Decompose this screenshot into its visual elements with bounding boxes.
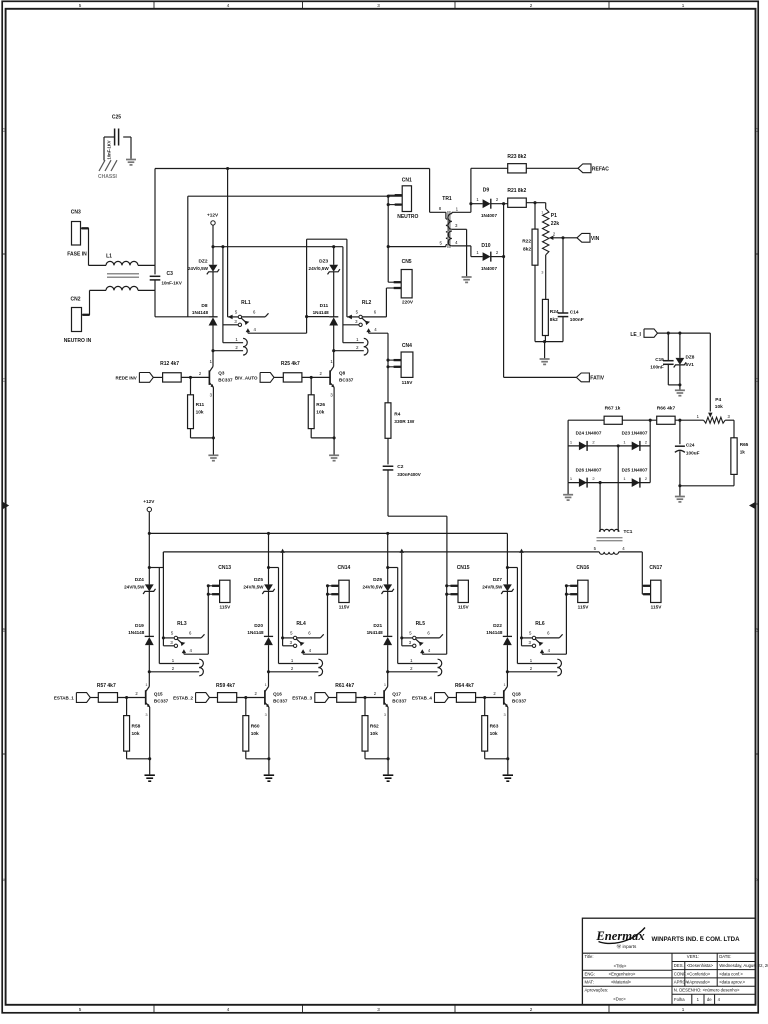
svg-text:B: B (3, 628, 6, 633)
label R59 (216, 683, 235, 689)
wire base Q16 (237, 697, 265, 699)
svg-text:D: D (2, 128, 5, 133)
inductor L1 core (107, 274, 139, 278)
junction D11 link (305, 315, 308, 318)
label C3 value (162, 281, 182, 286)
svg-text:10k: 10k (132, 731, 140, 737)
label R22 value (523, 247, 531, 253)
svg-text:CN13: CN13 (218, 565, 231, 571)
relay RL1 pin4 arrow (246, 328, 250, 333)
svg-text:DZ5: DZ5 (254, 577, 263, 583)
wire bridge left top (568, 420, 604, 482)
svg-text:BC337: BC337 (273, 698, 288, 703)
wire RL4 contact feed (280, 549, 284, 646)
pin 1 D25 (623, 476, 626, 481)
resistor R61 (337, 693, 356, 703)
wire flag ESTAB_1 (90, 697, 98, 699)
svg-text:100nF: 100nF (570, 317, 584, 323)
wire RL6 contact feed (519, 549, 523, 646)
pin 2 Q8 (320, 371, 323, 376)
pin 2 D23 (645, 440, 648, 445)
resistor R66 (657, 416, 675, 424)
svg-text:D19: D19 (135, 623, 144, 629)
junction CN14 stub2 (326, 593, 329, 596)
ground Q17 (383, 775, 393, 781)
svg-text:10nF-1KV: 10nF-1KV (107, 140, 112, 159)
svg-text:115V: 115V (339, 605, 351, 610)
relay RL1 armature (241, 318, 249, 325)
label D21 value (367, 630, 384, 635)
label CN4 115V (402, 380, 414, 385)
label CN17 115V (651, 605, 663, 610)
capacitor C19 (663, 333, 674, 385)
svg-text:FATIV: FATIV (590, 376, 604, 382)
relay RL5 armature (416, 639, 424, 646)
junction base Q3 (189, 376, 192, 379)
pin stub CN15-2 (447, 593, 458, 595)
pin 1 RL5 coil (410, 658, 413, 663)
pin 2 Q17 (374, 691, 377, 696)
svg-text:BC337: BC337 (154, 698, 169, 703)
svg-text:10k: 10k (316, 410, 324, 416)
svg-text:BC337: BC337 (512, 698, 527, 703)
svg-text:BC337: BC337 (218, 378, 233, 383)
wire emitter Q17 (387, 707, 389, 774)
resistor R24 (542, 299, 548, 335)
resistor R12 (163, 373, 182, 382)
junction TR1 pin5 riser (387, 245, 390, 248)
label CN4 (402, 343, 412, 349)
svg-text:1: 1 (265, 682, 267, 687)
pin 1 RL3 coil (172, 658, 175, 663)
pin 1 Q16 (265, 682, 267, 687)
svg-text:R12 4k7: R12 4k7 (160, 361, 179, 367)
junction emitter Q15 (148, 757, 151, 760)
border zone tick top 4 (608, 1, 610, 9)
svg-text:<data conf.>: <data conf.> (719, 971, 743, 976)
svg-text:R21 8k2: R21 8k2 (507, 188, 526, 194)
svg-text:DES.: DES. (674, 963, 684, 968)
pin 5 RL2 (356, 309, 359, 314)
text Title value (614, 964, 627, 969)
junction RL4 pin5 (281, 636, 284, 639)
junction bus3 ch1 main (211, 245, 214, 248)
pin 1 D24 (570, 440, 573, 445)
relay RL6 coil (557, 659, 561, 676)
zener diode DZ5 (262, 584, 274, 594)
pin 1 Q8 (330, 359, 333, 364)
junction emitter Q17 (387, 757, 390, 760)
pin stub CN17-2 (642, 593, 650, 595)
pin 2 RL6 coil (530, 666, 533, 671)
svg-text:CHASSI: CHASSI (98, 174, 118, 180)
junction base Q18 (483, 696, 486, 699)
label CN14 115V (339, 605, 351, 610)
svg-text:1N4007: 1N4007 (481, 213, 498, 218)
svg-text:Q8: Q8 (339, 371, 346, 376)
wire base Q3 (181, 376, 209, 378)
wire R23 feed (471, 168, 508, 203)
pin 2 Q16 (255, 691, 258, 696)
resistor R59 (218, 693, 237, 703)
wire CN3 to L1 (89, 228, 107, 265)
label VIN (591, 236, 600, 242)
pin stub CN1-1 (388, 194, 402, 196)
flag LE_I (644, 329, 658, 337)
label Q18 (512, 691, 521, 696)
label R60 value (251, 731, 259, 737)
pin 2 Q3 (199, 371, 202, 376)
flag ESTAB_4 (435, 693, 449, 703)
svg-text:8k2: 8k2 (550, 317, 558, 323)
svg-text:3: 3 (541, 270, 543, 275)
junction DZ8 top (678, 332, 681, 335)
svg-text:D20: D20 (254, 623, 263, 629)
earth ground bridge (563, 495, 573, 500)
relay RL6 contact 3 (532, 644, 535, 647)
pin stub CN4-2 (388, 366, 401, 368)
pin 3 RL3 (170, 640, 173, 645)
label D9 value (481, 213, 498, 218)
label Q18 type (512, 698, 527, 703)
title table left row3 (582, 985, 755, 987)
zener diode DZ2 (207, 265, 219, 275)
junction CN4 top (386, 359, 389, 362)
pin 1 Q18 (504, 682, 506, 687)
svg-text:Aprovações:: Aprovações: (585, 987, 609, 992)
wire CN4 riser (387, 360, 389, 403)
resistor R60 (243, 698, 249, 752)
junction R24 gnd (543, 340, 546, 343)
pin 5 RL3 (171, 630, 174, 635)
svg-text:8k2: 8k2 (523, 247, 531, 253)
svg-text:<Title>: <Title> (614, 964, 627, 969)
border zone tick bottom 4 (608, 1005, 610, 1013)
border center arrow right (749, 502, 756, 510)
wire C19 DZ8 bottom (668, 384, 680, 386)
relay RL3 contact 3 (174, 644, 177, 647)
svg-text:RL6: RL6 (535, 621, 545, 627)
relay RL3 coil (199, 659, 203, 676)
svg-text:D: D (755, 128, 758, 133)
svg-text:TC1: TC1 (624, 529, 633, 534)
svg-text:VER1:: VER1: (687, 954, 699, 959)
label C2 value (397, 472, 421, 477)
flag REFAC (578, 164, 591, 173)
connector CN5 (401, 270, 412, 298)
svg-text:C3: C3 (167, 271, 174, 277)
svg-text:5V1: 5V1 (686, 362, 695, 367)
text Material (611, 980, 632, 985)
label R65 (740, 442, 749, 447)
title table left row2 (582, 977, 672, 979)
wire R60 bottom (246, 751, 269, 759)
pin 2 Q15 (135, 691, 138, 696)
label RL3 (177, 621, 187, 627)
pin 4 TR1 (455, 240, 458, 245)
node +12V top (211, 221, 215, 225)
svg-text:FASE IN: FASE IN (67, 252, 87, 258)
label CN15 115V (458, 605, 470, 610)
svg-text:N. DESENHO: <número desenho>: N. DESENHO: <número desenho> (674, 988, 740, 993)
junction emitter Q16 (267, 757, 270, 760)
svg-text:1N4148: 1N4148 (247, 630, 264, 635)
wire bridge AC1 (617, 446, 619, 527)
svg-text:D22: D22 (493, 623, 502, 629)
wire neutro bus (188, 196, 402, 317)
ground Q15 (145, 775, 155, 781)
svg-text:CN4: CN4 (402, 343, 412, 349)
label R63 value (490, 731, 498, 737)
wire R26 bottom (311, 429, 334, 438)
label DZ6 value (363, 584, 384, 589)
wire RL5 contact feed (400, 549, 404, 646)
wire pin6 RL1 open (242, 313, 269, 317)
svg-text:1N4148: 1N4148 (128, 630, 145, 635)
junction RL3 pin5 (162, 636, 165, 639)
svg-text:1N4148: 1N4148 (313, 310, 330, 315)
svg-text:115V: 115V (402, 380, 414, 385)
wire DZ2 to D8 (212, 272, 214, 317)
svg-text:CN1: CN1 (402, 178, 412, 184)
label R11 (196, 402, 205, 408)
relay RL2 contact 3 (359, 323, 362, 326)
svg-text:R26: R26 (316, 402, 325, 408)
border zone tick top 1 (153, 1, 155, 9)
svg-text:NEUTRO: NEUTRO (397, 214, 418, 220)
resistor R25 (283, 373, 302, 382)
pin 1 RL1 coil (235, 337, 238, 342)
wire pin6 RL3 open (178, 634, 205, 638)
wire RL6 pin3 (522, 645, 533, 647)
diode D11 (329, 317, 338, 326)
pin 3 TR1 (455, 223, 458, 228)
label R26 value (316, 410, 324, 416)
title table col divider (671, 953, 673, 1005)
label C25 (112, 115, 121, 121)
wire RL1 pin5 feed (228, 169, 239, 320)
resistor R58 (124, 698, 130, 752)
svg-text:DZ3: DZ3 (319, 259, 328, 265)
label REDE INV (116, 375, 137, 380)
connector CN1 (402, 186, 411, 212)
label P4 (715, 397, 721, 403)
wire TR1 pin5 (388, 246, 446, 248)
pin 5 RL6 (529, 630, 532, 635)
svg-text:REFAC: REFAC (592, 167, 609, 173)
title block frame (582, 918, 755, 1005)
resistor R22 (532, 203, 538, 266)
wire TR1 pin4 (452, 246, 471, 257)
svg-text:220V: 220V (402, 300, 414, 305)
wire RL1 pin3 feed (223, 247, 238, 343)
text DATE (719, 954, 731, 959)
junction TR1 pin1 node (469, 202, 472, 205)
transistor Q8 (330, 367, 334, 388)
relay RL1 coil (243, 338, 247, 355)
pin 1 Q3 (210, 359, 213, 364)
wire D10 out (491, 256, 503, 258)
svg-text:ESTAB_1: ESTAB_1 (54, 695, 74, 700)
wire ch2 main drop (268, 533, 270, 584)
pin 3 RL5 (409, 640, 412, 645)
svg-text:1N4007: 1N4007 (481, 266, 498, 271)
label C24 value (686, 450, 700, 455)
pin 1 RL2 coil (356, 337, 359, 342)
label Q3 type (218, 378, 233, 383)
earth ground Q8 (329, 455, 339, 460)
pin 2 RL5 coil (410, 666, 413, 671)
svg-text:C: C (755, 378, 758, 383)
svg-text:R60: R60 (251, 724, 260, 730)
svg-text:115V: 115V (578, 605, 590, 610)
text data conf (719, 971, 743, 976)
label DZ8 value (686, 362, 695, 367)
svg-text:CN16: CN16 (576, 565, 589, 571)
relay RL3 armature (177, 639, 185, 646)
pin 3 Q3 (210, 392, 213, 397)
junction bridge row2 center (599, 481, 602, 484)
label C24 (686, 443, 695, 448)
label R58 value (132, 731, 140, 737)
svg-text:5: 5 (79, 3, 82, 8)
wire CN2 to L1 (90, 290, 107, 314)
text Folha (674, 997, 685, 1002)
relay RL4 contact 3 (293, 644, 296, 647)
svg-text:R57 4k7: R57 4k7 (97, 683, 116, 689)
border zone tick left 3 (2, 753, 5, 755)
junction emitter Q8 (333, 436, 336, 439)
junction RL6 coil pin2 (506, 670, 509, 673)
junction CN14 stub1 (326, 584, 329, 587)
label R62 value (370, 731, 378, 737)
svg-text:10k: 10k (196, 410, 204, 416)
wire D21 to Q17 (387, 645, 389, 686)
svg-text:3: 3 (145, 712, 147, 717)
wire C25 left down (103, 137, 105, 161)
svg-text:24V/0,5W: 24V/0,5W (243, 584, 264, 589)
label C25 value (107, 140, 112, 159)
svg-text:C25: C25 (112, 115, 121, 121)
connector CN15 (458, 580, 468, 602)
label D26 (576, 467, 602, 472)
label DZ7 (493, 577, 502, 583)
wire RL4 pin4 riser (303, 586, 327, 654)
wire D8 to Q3 (212, 326, 214, 367)
junction D10 node (502, 255, 505, 258)
svg-text:100uF: 100uF (686, 450, 700, 455)
label ESTAB_1 (54, 695, 74, 700)
border zone number 1 top (682, 3, 685, 8)
svg-text:R67 1k: R67 1k (605, 405, 621, 411)
pin 1 RL4 coil (291, 658, 294, 663)
diode D10 (483, 252, 491, 262)
label R57 (97, 683, 116, 689)
wire ch3 main drop (387, 533, 389, 584)
label DZ3 value (309, 266, 330, 271)
border zone letter A left (3, 878, 6, 883)
border zone number 4 top (227, 3, 230, 8)
border zone letter C left (2, 378, 5, 383)
wire RL4 coil feed (278, 568, 280, 664)
svg-text:<data aprov.>: <data aprov.> (719, 980, 745, 985)
label D22 value (486, 630, 503, 635)
pin 2 P1 (553, 232, 556, 237)
node +12V bottom (147, 507, 151, 511)
wire RL2 pin4 to CN4 (369, 333, 388, 360)
pin 1 D26 (570, 476, 573, 481)
label ESTAB_4 (412, 695, 432, 700)
pin 1 RL6 coil (530, 658, 533, 663)
border center arrow left (2, 502, 9, 510)
svg-text:D21: D21 (373, 623, 382, 629)
label C3 (167, 271, 174, 277)
wire rail B (163, 551, 599, 553)
connector CN3 (72, 222, 81, 246)
junction RL5 coil pin2 (386, 670, 389, 673)
pin stub CN2 (82, 314, 91, 316)
label BIV_AUTO (235, 375, 258, 380)
title table right rowB (672, 969, 756, 971)
text Engenheiro (609, 971, 636, 976)
diode D25 (632, 478, 640, 488)
wire R66 to P4 (675, 419, 704, 421)
inductor L1 winding B (106, 286, 155, 290)
junction rail A ch3 (386, 532, 389, 535)
svg-text:D25 1N4007: D25 1N4007 (622, 467, 648, 472)
text data aprov (719, 980, 745, 985)
title table col2 (684, 962, 686, 987)
transformer TC1 top winding (599, 529, 619, 531)
pin stub CN5-2 (386, 287, 401, 289)
svg-text:Enermax: Enermax (595, 929, 644, 943)
label DZ7 value (482, 584, 503, 589)
svg-text:10k: 10k (715, 404, 723, 410)
flag ESTAB_3 (315, 693, 329, 703)
text folha de (707, 997, 712, 1002)
pin 2 D26 (592, 476, 595, 481)
label R23 (507, 154, 526, 160)
label ESTAB_3 (292, 695, 312, 700)
junction jog RL5 (386, 566, 389, 569)
svg-text:<Material>: <Material> (611, 980, 632, 985)
earth ground TR1 (462, 277, 472, 282)
diode D26 (579, 478, 587, 488)
wire LE_I (658, 332, 711, 334)
title table right rowA (672, 961, 756, 963)
label R63 (490, 724, 499, 730)
border zone tick top 3 (454, 1, 456, 9)
svg-text:ESTAB_2: ESTAB_2 (173, 695, 193, 700)
junction bridge out (649, 419, 652, 422)
flag FATIV (576, 373, 589, 382)
text Aprovacoes (585, 987, 609, 992)
svg-text:115V: 115V (220, 605, 232, 610)
junction CN16 stub1 (565, 584, 568, 587)
svg-text:CN5: CN5 (402, 259, 412, 265)
svg-text:5: 5 (79, 1007, 82, 1012)
wire RL6 coil pin1 (517, 663, 557, 665)
pin 4 RL3 (190, 648, 193, 653)
wire flag ESTAB_3 (329, 697, 337, 699)
border zone tick left 1 (2, 253, 5, 255)
svg-text:115V: 115V (458, 605, 470, 610)
svg-text:WINPARTS IND. E COM. LTDA: WINPARTS IND. E COM. LTDA (651, 936, 740, 943)
svg-text:ESTAB_3: ESTAB_3 (292, 695, 312, 700)
pin 2 RL2 coil (356, 345, 359, 350)
label R26 (316, 402, 325, 408)
pin 3 RL1 (234, 319, 237, 324)
